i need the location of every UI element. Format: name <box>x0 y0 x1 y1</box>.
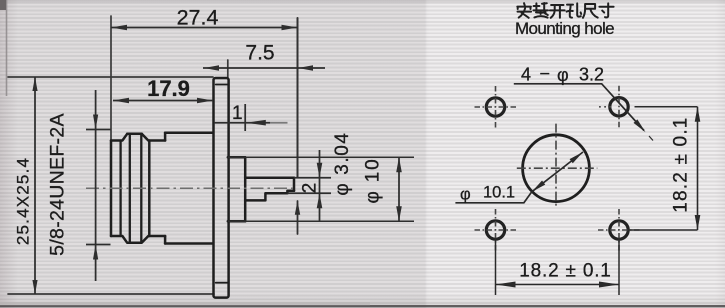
svg-text:4: 4 <box>521 65 531 85</box>
scan left fold line <box>6 0 8 96</box>
svg-text:1: 1 <box>232 103 243 124</box>
body bottom edge <box>165 242 213 245</box>
thread line 1 <box>119 141 121 237</box>
dimension 25.4X25.4 <box>32 77 37 294</box>
thread line 3 <box>140 134 142 242</box>
char An <box>517 3 531 18</box>
svg-text:3.2: 3.2 <box>579 65 604 85</box>
nut top profile <box>111 134 165 141</box>
nut bottom profile <box>111 236 165 243</box>
wire: top extension line <box>8 76 213 78</box>
hole H4 bottom-right <box>598 209 640 251</box>
node C: right extension line x=297.5 lower <box>297 201 299 234</box>
scan bottom dark edge <box>0 305 725 307</box>
dimension 17.9 <box>113 98 213 104</box>
nut left face <box>110 141 113 237</box>
svg-text:φ: φ <box>557 65 569 85</box>
svg-text:27.4: 27.4 <box>177 6 219 30</box>
connector body outline <box>111 78 294 298</box>
svg-text:7.5: 7.5 <box>245 42 274 65</box>
flange plate <box>214 78 229 298</box>
node B: right extension line x=297.5 upper <box>297 18 299 177</box>
tick inside flange bottom <box>216 282 229 284</box>
leader to phi 10.1 label <box>455 192 531 203</box>
centerline <box>86 187 293 189</box>
body top edge <box>165 132 213 135</box>
pin bottom step profile <box>245 191 294 201</box>
svg-text:φ: φ <box>460 186 471 204</box>
svg-text:5/8-24UNEF-2A: 5/8-24UNEF-2A <box>47 113 69 256</box>
node D: flange-right extension above <box>227 60 229 78</box>
dimension phi 10 <box>228 157 414 221</box>
svg-text:18.2 ± 0.1: 18.2 ± 0.1 <box>519 261 611 282</box>
title CJK (hand-drawn strokes) <box>517 3 613 18</box>
dimension 18.2 +/- 0.1 bottom <box>496 238 620 295</box>
char Cun <box>599 3 613 17</box>
thread line 2 <box>129 134 131 242</box>
svg-text:18.2 ± 0.1: 18.2 ± 0.1 <box>670 116 691 212</box>
svg-text:φ 10: φ 10 <box>363 158 384 204</box>
char Zhuang <box>533 3 548 18</box>
nut right face <box>148 141 151 237</box>
svg-text:φ 3.04: φ 3.04 <box>332 131 353 195</box>
dimension 4-phi3.2 leader <box>514 84 653 141</box>
center hole big circle <box>517 124 598 208</box>
svg-text:−: − <box>540 64 551 84</box>
char Kong <box>567 3 582 17</box>
svg-text:Mounting hole: Mounting hole <box>515 19 614 38</box>
dimension 7.5 <box>203 65 325 71</box>
rear body bottom <box>228 220 245 223</box>
svg-text:25.4X25.4: 25.4X25.4 <box>14 157 33 245</box>
diameter arrow line of big circle <box>455 150 584 203</box>
dimension 5/8 thread <box>86 90 111 281</box>
dimension 27.4 <box>111 25 298 31</box>
rear body top <box>228 156 245 159</box>
node A: left extension line x=111 <box>110 16 112 141</box>
dimension phi 3.04 <box>287 150 331 222</box>
insulator/pin top <box>245 176 294 179</box>
body step left <box>164 133 167 244</box>
hole H1 top-left <box>475 86 517 128</box>
hole H3 bottom-left <box>475 209 517 251</box>
svg-text:2: 2 <box>300 183 321 194</box>
dimension 2 arrows <box>295 201 300 215</box>
char Chi <box>583 4 598 18</box>
dimension 18.2 +/- 0.1 right <box>628 107 701 230</box>
scan corner blob <box>0 0 6 10</box>
dimension 1 <box>214 104 288 131</box>
rear body right face <box>244 157 247 221</box>
svg-text:17.9: 17.9 <box>147 76 190 101</box>
svg-text:10.1: 10.1 <box>483 184 515 202</box>
hole H2 top-right <box>599 86 628 128</box>
char Kai <box>550 5 565 18</box>
pin tip face <box>293 178 296 191</box>
wire: bottom extension line <box>8 293 214 295</box>
nut flat top <box>127 133 142 136</box>
tick inside flange top <box>216 84 229 86</box>
